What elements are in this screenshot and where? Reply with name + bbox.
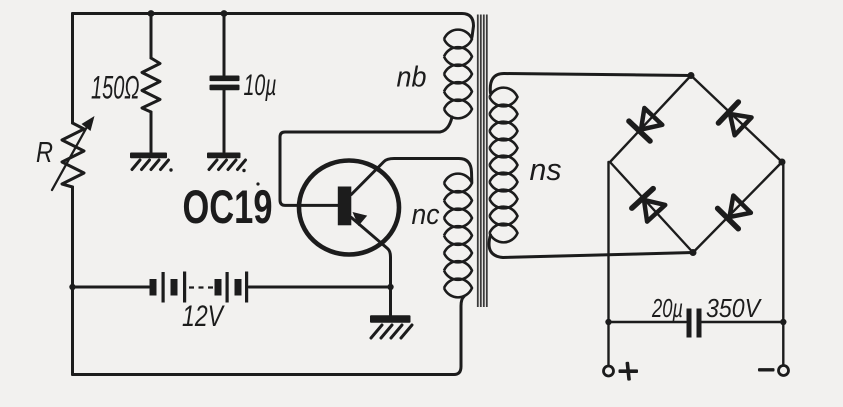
svg-text:150Ω: 150Ω <box>91 70 140 106</box>
svg-text:nb: nb <box>397 62 427 94</box>
svg-text:20µ: 20µ <box>651 293 683 323</box>
svg-text:nc: nc <box>412 199 440 231</box>
svg-text:10µ: 10µ <box>244 69 277 102</box>
svg-text:ns: ns <box>530 152 562 187</box>
svg-text:OC19: OC19 <box>183 180 273 233</box>
svg-text:12V: 12V <box>182 300 225 333</box>
svg-text:R: R <box>36 137 53 169</box>
svg-text:350V: 350V <box>706 293 762 323</box>
